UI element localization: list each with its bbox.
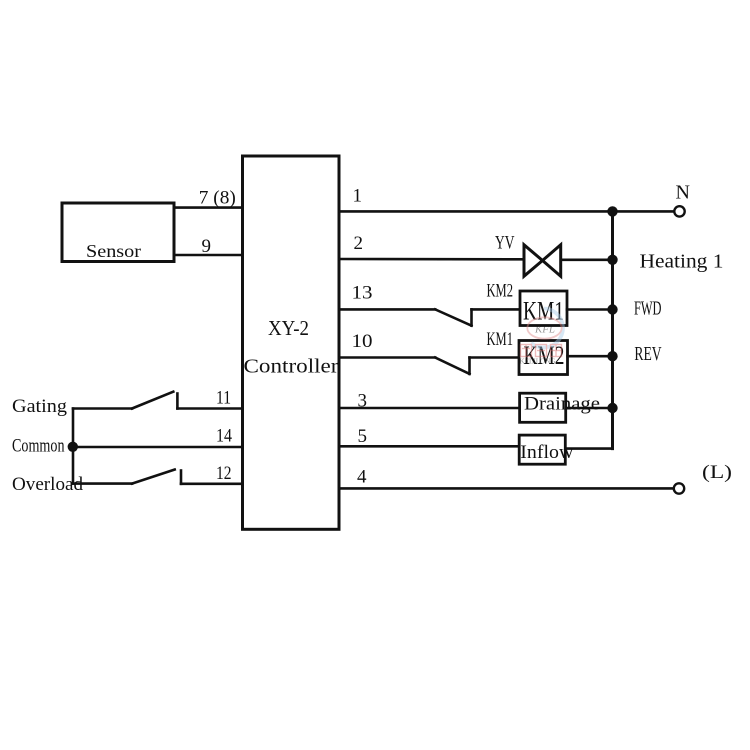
coil KM2 box	[519, 341, 568, 375]
wire Inflow box to bus corner	[565, 447, 612, 450]
svg-text:2: 2	[354, 233, 364, 254]
terminal L circle	[674, 483, 684, 493]
svg-text:9: 9	[202, 236, 212, 257]
switch KM2 contact bar	[470, 309, 473, 325]
svg-text:Common: Common	[12, 436, 65, 457]
terminal N circle	[674, 206, 684, 216]
svg-text:10: 10	[352, 331, 373, 352]
wire pin 1 to N terminal	[339, 210, 674, 213]
svg-text:Sensor: Sensor	[86, 241, 141, 261]
vertical bus N	[611, 211, 614, 448]
wire pin 13 to switch KM2	[339, 308, 435, 311]
wire valve YV to bus	[561, 258, 613, 261]
valve YV bowtie right triangle	[543, 245, 561, 276]
junction dot FWD row	[607, 304, 617, 314]
svg-text:Gating: Gating	[12, 396, 68, 417]
wire pin 12 left	[181, 482, 243, 485]
svg-text:4: 4	[357, 467, 367, 488]
wire pin 7(8) sensor to controller	[174, 206, 243, 209]
switch Gating contact bar	[176, 394, 179, 409]
wire coil KM2 to bus REV	[568, 355, 613, 358]
svg-text:13: 13	[352, 283, 373, 304]
wire Overload to switch	[73, 482, 132, 485]
svg-text:7 (8): 7 (8)	[199, 187, 236, 208]
wire switch to coil KM2	[470, 356, 520, 359]
svg-text:14: 14	[216, 426, 232, 447]
svg-text:Drainage: Drainage	[524, 394, 600, 415]
switch Gating blade	[132, 392, 173, 409]
svg-text:FWD: FWD	[634, 297, 662, 319]
switch Overload contact bar	[180, 471, 183, 484]
svg-text:XY-2: XY-2	[268, 316, 309, 340]
junction dot REV row	[607, 351, 617, 361]
wire pin 14 Common	[73, 446, 243, 449]
svg-text:Inflow: Inflow	[520, 442, 573, 463]
left vertical wire joining Gating Common Overload	[72, 409, 75, 484]
svg-text:3: 3	[358, 390, 368, 411]
junction dot Common left	[68, 442, 78, 452]
svg-text:Heating 1: Heating 1	[640, 251, 724, 273]
svg-text:(L): (L)	[702, 462, 732, 483]
svg-text:Overload: Overload	[12, 474, 83, 495]
wire Drainage box to bus	[566, 407, 613, 410]
switch KM1 blade (NO contact)	[435, 358, 469, 374]
watermark red CJK chars	[521, 345, 562, 357]
sensor box	[62, 203, 174, 262]
watermark blue circle	[531, 309, 563, 348]
wire pin 3 to Drainage box	[339, 407, 520, 410]
svg-text:KFL: KFL	[534, 324, 555, 336]
svg-text:KELILONG: KELILONG	[520, 358, 556, 366]
wire pin 9 sensor to controller	[174, 254, 243, 257]
svg-text:KM1: KM1	[487, 329, 514, 350]
svg-text:12: 12	[216, 463, 232, 484]
coil KM1 box	[520, 291, 567, 326]
junction dot Heating row	[607, 255, 617, 265]
svg-text:REV: REV	[634, 343, 662, 365]
switch KM2 blade (NO contact)	[435, 309, 471, 325]
svg-text:1: 1	[353, 186, 363, 207]
wire pin 10 to switch KM1	[339, 356, 435, 359]
watermark stamp KFL	[520, 309, 563, 366]
controller box U1 XY-2	[243, 156, 340, 529]
wire pin 4 to L terminal	[339, 487, 674, 490]
svg-text:11: 11	[216, 388, 231, 409]
wire pin 5 to Inflow box	[339, 445, 519, 448]
wire pin 11 left	[177, 407, 242, 410]
svg-text:5: 5	[358, 426, 368, 447]
Drainage box	[520, 393, 566, 422]
switch KM1 contact bar	[468, 358, 471, 374]
switch Overload blade	[132, 470, 175, 484]
wire switch to coil KM1	[472, 308, 521, 311]
svg-text:N: N	[676, 182, 690, 204]
svg-text:KM2: KM2	[524, 341, 565, 370]
junction dot Drainage row	[607, 403, 617, 413]
Inflow box	[519, 435, 565, 464]
junction dot N row	[607, 206, 617, 216]
wire pin 2 to valve YV	[339, 258, 524, 261]
svg-text:YV: YV	[495, 233, 515, 254]
wire coil KM1 to bus FWD	[567, 308, 613, 311]
svg-text:KM2: KM2	[487, 281, 514, 302]
svg-text:Controller: Controller	[244, 357, 340, 378]
valve YV bowtie left triangle	[524, 245, 543, 276]
wire Gating to switch	[73, 407, 132, 410]
watermark pink circle	[527, 317, 561, 338]
